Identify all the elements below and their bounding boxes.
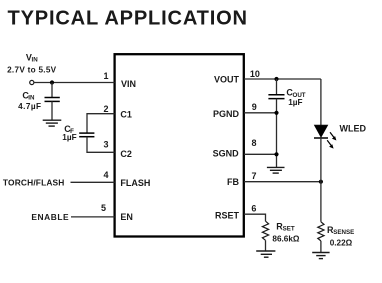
pin number 6	[251, 203, 256, 213]
svg-text:PGND: PGND	[213, 109, 240, 119]
svg-text:8: 8	[252, 138, 257, 148]
pin label VIN	[121, 79, 136, 89]
svg-text:VOUT: VOUT	[214, 74, 240, 84]
diode WLED cathode bar	[314, 137, 328, 139]
diode WLED triangle	[314, 125, 328, 137]
svg-text:EN: EN	[120, 212, 133, 222]
value 1uF CF	[62, 133, 76, 142]
svg-text:C2: C2	[120, 149, 132, 159]
svg-text:9: 9	[252, 102, 257, 112]
pin number 1	[103, 71, 108, 81]
junction dot pin9	[274, 111, 278, 115]
wire pin9 PGND	[244, 112, 277, 114]
pin label RSET	[215, 211, 240, 221]
value 4.7uF	[18, 102, 41, 111]
svg-text:SGND: SGND	[213, 148, 240, 158]
label RSENSE	[327, 225, 354, 236]
label RSET	[276, 221, 295, 232]
wire pin8 SGND	[244, 153, 277, 155]
svg-text:6: 6	[251, 203, 256, 213]
resistor RSET	[262, 221, 268, 240]
value 86.6k	[272, 235, 299, 244]
pin number 5	[101, 203, 106, 213]
wire pin5 EN	[71, 216, 115, 218]
wire RSET bottom	[265, 240, 267, 251]
wire FB to RSENSE	[320, 182, 322, 222]
svg-text:7: 7	[252, 171, 257, 181]
junction dot FB	[319, 180, 323, 184]
svg-text:RSET: RSET	[215, 211, 240, 221]
pin label PGND	[213, 109, 240, 119]
svg-text:IN: IN	[28, 95, 35, 102]
pin number 2	[103, 104, 108, 114]
pin number 3	[103, 139, 108, 149]
svg-text:1: 1	[103, 71, 108, 81]
pin label VOUT	[214, 74, 240, 84]
ground RSENSE	[312, 253, 329, 259]
label CIN	[22, 91, 35, 102]
node VIN input terminal	[30, 80, 34, 84]
ground RSET	[256, 251, 275, 257]
svg-text:VIN: VIN	[121, 79, 136, 89]
label ENABLE	[31, 212, 69, 222]
arrow WLED emission 2	[327, 140, 333, 148]
wire CIN top	[51, 83, 53, 98]
svg-text:IN: IN	[32, 57, 39, 64]
label TORCH/FLASH	[3, 178, 65, 188]
wire VOUT to WLED anode	[320, 79, 322, 125]
pin number 9	[252, 102, 257, 112]
svg-text:ENABLE: ENABLE	[31, 212, 69, 222]
pin number 8	[252, 138, 257, 148]
label WLED	[340, 124, 367, 134]
capacitor COUT	[268, 95, 284, 99]
wire WLED cathode to FB	[320, 138, 322, 182]
svg-text:5: 5	[101, 203, 106, 213]
label 2.7V to 5.5V	[7, 66, 57, 75]
capacitor CF	[79, 133, 94, 137]
ground SGND	[267, 167, 285, 173]
wire pin7 FB	[244, 181, 321, 183]
pin label C1	[120, 110, 132, 120]
svg-text:WLED: WLED	[340, 124, 367, 134]
label VIN supply	[26, 52, 38, 63]
wire CIN bottom	[51, 101, 53, 120]
pin label EN	[120, 212, 133, 222]
svg-text:2: 2	[103, 104, 108, 114]
junction dot pin8	[274, 152, 278, 156]
wire pin1 VIN	[34, 82, 115, 84]
wire RSENSE bottom	[320, 241, 322, 253]
pin number 10	[250, 69, 260, 79]
wire pin3 C2	[87, 137, 115, 153]
capacitor CIN	[45, 98, 60, 102]
svg-text:2.7V to 5.5V: 2.7V to 5.5V	[7, 66, 57, 75]
arrow WLED emission 1	[330, 132, 336, 140]
pin number 7	[252, 171, 257, 181]
wire pin2 C1	[87, 114, 115, 133]
pin label C2	[120, 149, 132, 159]
svg-text:10: 10	[250, 69, 260, 79]
wire pin10 VOUT	[244, 78, 321, 80]
svg-text:TYPICAL APPLICATION: TYPICAL APPLICATION	[8, 8, 248, 30]
value 1uF COUT	[288, 98, 302, 107]
svg-text:SET: SET	[283, 226, 295, 233]
svg-text:86.6kΩ: 86.6kΩ	[272, 235, 299, 244]
label COUT	[286, 88, 305, 99]
svg-text:1µF: 1µF	[288, 98, 302, 107]
svg-text:0.22Ω: 0.22Ω	[330, 238, 353, 247]
pin number 4	[103, 170, 108, 180]
svg-text:FLASH: FLASH	[120, 178, 150, 188]
svg-text:4.7µF: 4.7µF	[18, 102, 41, 111]
wire COUT bottom to SGND ground	[276, 99, 278, 168]
svg-text:3: 3	[103, 139, 108, 149]
value 0.22 ohm	[330, 238, 353, 247]
pin label SGND	[213, 148, 240, 158]
op-amp U1 IC body	[115, 54, 244, 236]
label CF	[64, 124, 74, 135]
ground CIN	[43, 120, 62, 126]
pin label FLASH	[120, 178, 150, 188]
junction dot COUT	[274, 77, 278, 81]
svg-text:1µF: 1µF	[62, 133, 76, 142]
wire pin6 RSET	[244, 214, 266, 221]
title TYPICAL APPLICATION	[8, 8, 248, 30]
svg-text:C1: C1	[120, 110, 132, 120]
svg-text:TORCH/FLASH: TORCH/FLASH	[3, 178, 65, 188]
junction dot CIN	[50, 80, 54, 84]
pin label FB	[227, 177, 239, 187]
svg-text:4: 4	[103, 170, 108, 180]
resistor RSENSE	[318, 222, 324, 241]
wire pin4 FLASH	[71, 181, 115, 183]
svg-text:FB: FB	[227, 177, 239, 187]
wire COUT top	[276, 79, 278, 95]
svg-text:SENSE: SENSE	[333, 229, 354, 236]
